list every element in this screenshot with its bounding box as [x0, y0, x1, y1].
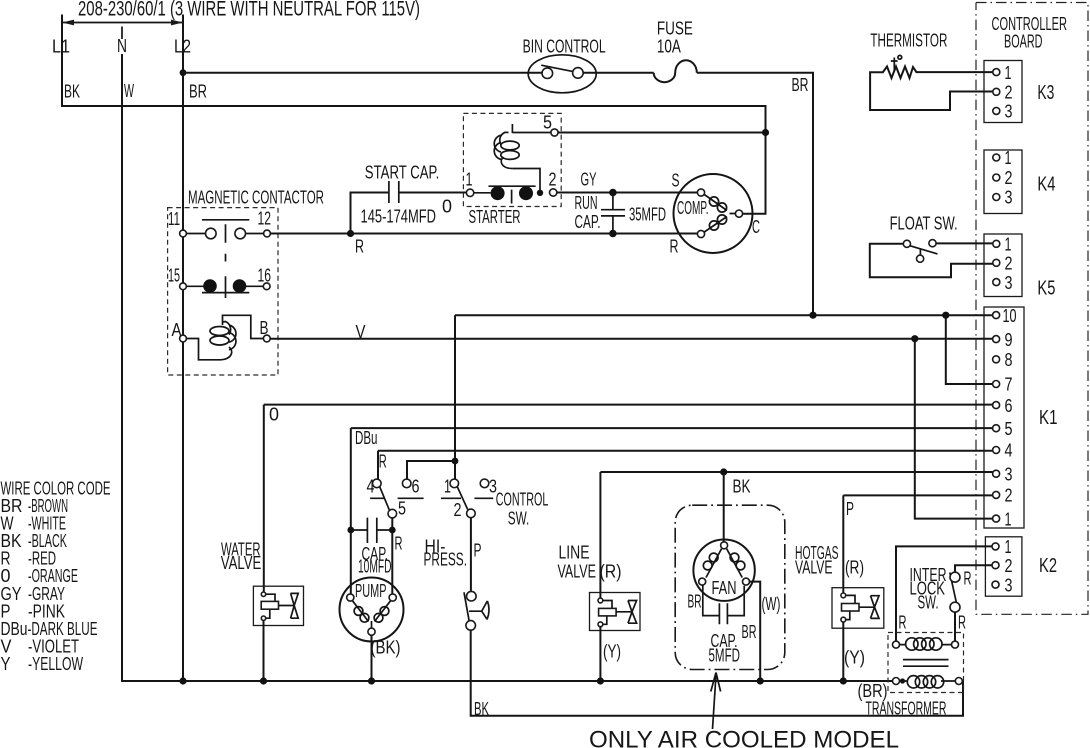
fuse F1 10A: [654, 60, 697, 82]
control switch terminal 4: [373, 479, 382, 488]
svg-text:R: R: [355, 236, 364, 257]
connector K4 pin 3: [993, 194, 1000, 201]
interlock switch contacts: [950, 572, 960, 612]
wire fan right W drop to rail: [750, 582, 761, 681]
svg-text:(R): (R): [600, 561, 622, 582]
connector K1 pin 8: [993, 356, 1000, 363]
svg-text:PRESS.: PRESS.: [424, 549, 468, 570]
connector K4 box: [984, 150, 1022, 214]
connector K1 pin 3: [993, 470, 1000, 477]
svg-text:5: 5: [398, 498, 406, 519]
line valve coil and valve symbol: [599, 601, 637, 625]
control switch terminal 3: [480, 479, 489, 488]
svg-text:0: 0: [442, 196, 452, 217]
node rail junction hotgas: [840, 677, 847, 684]
svg-text:2: 2: [1005, 253, 1013, 274]
water valve box: [253, 586, 303, 625]
svg-text:FLOAT SW.: FLOAT SW.: [890, 213, 958, 234]
starter terminal 5: [551, 129, 558, 136]
wire hotgas valve to rail: [842, 622, 844, 681]
hi-press switch: [464, 591, 489, 630]
svg-text:(R): (R): [845, 557, 864, 578]
svg-text:1: 1: [1005, 62, 1012, 83]
transformer primary coil: [900, 638, 952, 650]
wire BR top run to bin control: [183, 72, 542, 74]
wire BR after fuse, down to K1-10 line: [697, 73, 813, 316]
wire DBu line to pin 5: [351, 427, 993, 429]
capacitor cap10 plates and leads: [351, 518, 393, 543]
wire BR from bin control to fuse: [583, 72, 654, 74]
node junction BR on pin10 line: [809, 312, 816, 319]
fan terminal right: [743, 578, 750, 585]
svg-text:START CAP.: START CAP.: [365, 162, 440, 183]
transformer T1 dashed box: [888, 633, 964, 693]
connector K5 pin 1: [993, 240, 1000, 247]
thermistor symbol and leads: [870, 67, 993, 111]
transformer secondary terminal right: [955, 678, 962, 685]
wire V line from contactor B to pin 9: [270, 338, 992, 340]
svg-text:BR: BR: [189, 81, 207, 102]
svg-text:BOARD: BOARD: [1004, 31, 1043, 52]
wire line valve to rail: [599, 627, 601, 681]
node junction cap10 left: [347, 527, 354, 534]
svg-text:DBu: DBu: [355, 427, 378, 448]
connector K1 pin 5: [993, 425, 1000, 432]
wire BK line to pin 3: [600, 471, 992, 473]
connector K4 pin 1: [993, 154, 1000, 161]
svg-text:2: 2: [549, 169, 557, 190]
svg-text:RUN: RUN: [575, 192, 598, 213]
connector K3 box: [984, 61, 1022, 123]
svg-text:BK: BK: [733, 476, 751, 497]
svg-text:A: A: [172, 319, 183, 340]
connector K5 pin 3: [993, 279, 1000, 286]
connector K1 pin 9: [993, 336, 1000, 343]
fan terminal left: [699, 578, 706, 585]
connector K5 pin 2: [993, 259, 1000, 266]
svg-text:SW.: SW.: [918, 592, 939, 613]
svg-text:P: P: [846, 498, 854, 519]
fan windings: [703, 549, 745, 578]
compressor terminal R: [697, 230, 704, 237]
wire starter 2 to compressor S: [557, 192, 698, 194]
svg-text:LINE: LINE: [559, 542, 590, 563]
svg-text:2: 2: [1005, 167, 1013, 188]
connector K5 box: [984, 234, 1022, 297]
wire K2 pin1 to transformer primary left: [896, 546, 992, 641]
svg-text:11: 11: [168, 208, 180, 229]
fan enclosure dash-dot rounded box: [675, 505, 785, 669]
contactor terminal 15: [180, 283, 187, 290]
wire BK drop to line valve: [599, 472, 601, 598]
water valve coil and valve symbol: [261, 593, 298, 618]
wire N neutral: down to bottom rail, rail across: [122, 54, 893, 681]
node rail junction pump: [368, 677, 375, 684]
control switch terminal 1: [450, 479, 459, 488]
svg-text:SW.: SW.: [508, 508, 530, 529]
wire K2 pin2 to interlock: [955, 565, 992, 572]
compressor terminal C: [735, 210, 742, 217]
svg-text:4: 4: [367, 476, 375, 497]
svg-text:(BK): (BK): [371, 637, 401, 658]
compressor terminal S: [697, 189, 704, 196]
node junction V to pin1 riser: [911, 335, 918, 342]
connector K1 pin 10: [993, 312, 1000, 319]
svg-text:FAN: FAN: [712, 577, 737, 598]
svg-text:B: B: [260, 317, 269, 338]
svg-text:9: 9: [1005, 329, 1013, 350]
pump terminal bottom: [368, 628, 375, 635]
wire pump to bottom rail: [371, 635, 373, 681]
svg-text:0: 0: [269, 404, 279, 425]
svg-text:2: 2: [1005, 485, 1013, 506]
line valve terminal top: [598, 598, 603, 603]
control switch terminal 2: [467, 509, 476, 518]
connector K1 box: [984, 307, 1024, 528]
svg-text:1: 1: [1005, 234, 1012, 255]
svg-text:BIN CONTROL: BIN CONTROL: [523, 36, 606, 57]
starter coil leads: [512, 124, 551, 193]
svg-text:K3: K3: [1037, 82, 1054, 104]
wire DBu drop to pump left: [350, 428, 352, 594]
control switch arm 1-2: [457, 487, 467, 510]
wire K1 pin10 line: [455, 314, 993, 316]
connector K4 pin 2: [993, 174, 1000, 181]
hotgas valve terminal bottom: [841, 617, 846, 622]
wire R line to pin 4: [378, 450, 993, 452]
starter dashed box: [463, 113, 561, 206]
svg-text:2: 2: [1005, 555, 1013, 576]
contactor coil leads: [186, 315, 263, 360]
contactor coil MC: [210, 322, 236, 360]
svg-text:S: S: [672, 170, 680, 191]
svg-text:7: 7: [1005, 374, 1013, 395]
dimension arrow line: [62, 20, 183, 39]
connector K2 pin 2: [992, 562, 999, 569]
compressor windings: [704, 195, 735, 233]
node rail junction water valve: [260, 677, 267, 684]
node junction run cap top: [609, 189, 617, 197]
svg-text:R: R: [964, 568, 972, 589]
svg-text:12: 12: [258, 208, 272, 229]
node junction R start-cap tap: [347, 230, 354, 237]
svg-text:BR: BR: [742, 621, 757, 642]
svg-text:1: 1: [1005, 508, 1012, 529]
wire hi-press down and BK bottom run to transformer: [471, 630, 963, 716]
svg-text:P: P: [474, 540, 482, 561]
control switch terminal 5: [388, 509, 397, 518]
thermistor t-degree mark: [891, 58, 898, 72]
svg-text:1: 1: [444, 476, 451, 497]
svg-text:10A: 10A: [657, 36, 681, 57]
svg-text:N: N: [117, 35, 127, 56]
svg-text:K1: K1: [1039, 407, 1058, 429]
svg-text:15: 15: [168, 265, 180, 286]
wire contactor 12 to compressor R: [270, 233, 697, 235]
transformer secondary coil: [900, 676, 956, 688]
connector K2 pin 3: [992, 581, 999, 588]
svg-text:10MFD: 10MFD: [358, 556, 392, 577]
svg-text:R: R: [899, 612, 907, 633]
wire branch to control sw 6: [407, 461, 455, 479]
starter coil: [494, 132, 519, 168]
node rail junction L2: [179, 677, 186, 684]
svg-text:16: 16: [258, 265, 272, 286]
pump terminal right: [389, 594, 396, 601]
svg-text:PUMP: PUMP: [355, 580, 387, 601]
wire control sw 5 down to pump right: [391, 518, 393, 594]
contactor terminal A: [180, 335, 187, 342]
connector K1 pin 6: [993, 402, 1000, 409]
wire fan feed drop: [723, 472, 725, 542]
node rail junction line valve: [597, 677, 604, 684]
connector K3 pin 2: [993, 88, 1000, 95]
svg-text:3: 3: [1005, 101, 1013, 122]
wire pin1 riser: [915, 339, 993, 519]
svg-text:BK: BK: [64, 81, 80, 102]
wire fan left to cap5: [703, 585, 720, 616]
svg-text:VALVE: VALVE: [221, 552, 261, 573]
svg-text:-YELLOW: -YELLOW: [28, 653, 83, 674]
svg-text:35MFD: 35MFD: [629, 204, 666, 225]
svg-text:ONLY AIR COOLED MODEL: ONLY AIR COOLED MODEL: [589, 727, 899, 748]
water valve terminal top: [261, 592, 265, 596]
water valve terminal bottom: [261, 616, 265, 620]
float switch wires: [870, 243, 993, 277]
transformer primary terminal left: [893, 641, 900, 648]
control switch terminal 6: [402, 479, 411, 488]
capacitor cap5 plates: [719, 603, 727, 624]
wire L2 vertical through contactor: [182, 15, 184, 682]
bin control switch: [528, 55, 596, 93]
wire L1 black: down and across to compressor C: [62, 15, 766, 214]
svg-text:3: 3: [1005, 187, 1013, 208]
caption arrow to fan enclosure: [711, 673, 721, 730]
svg-text:10: 10: [1003, 305, 1017, 326]
connector K1 pin 4: [993, 447, 1000, 454]
node junction control sw 1/6: [452, 458, 459, 465]
transformer secondary terminal left: [893, 678, 900, 685]
svg-text:K5: K5: [1037, 278, 1055, 300]
line valve terminal bottom: [598, 622, 603, 627]
svg-text:R: R: [958, 612, 966, 633]
connector K2 pin 1: [992, 543, 999, 550]
wire control sw 2 down to hi-press: [470, 518, 472, 592]
hotgas valve box: [832, 588, 884, 629]
wire starter 5 to BK drop: [558, 132, 765, 134]
wire O drop to water valve: [263, 405, 265, 593]
svg-text:R: R: [670, 236, 679, 257]
svg-text:CAP.: CAP.: [575, 211, 601, 232]
connector K1 pin 1: [993, 515, 1000, 522]
connector K2 box: [985, 537, 1022, 596]
svg-text:6: 6: [412, 476, 420, 497]
svg-text:THERMISTOR: THERMISTOR: [870, 30, 947, 51]
svg-text:(W): (W): [762, 593, 781, 614]
svg-text:5: 5: [1005, 418, 1013, 439]
svg-text:5MFD: 5MFD: [709, 645, 741, 666]
connector K1 pin 2: [993, 491, 1000, 498]
wire R drop to control sw 4: [377, 451, 379, 480]
svg-text:R: R: [379, 451, 387, 472]
pump motor circle: [340, 578, 404, 642]
node starter coil junction: [537, 190, 543, 196]
connector K1 pin 7: [993, 381, 1000, 388]
svg-text:TRANSFORMER: TRANSFORMER: [866, 698, 947, 719]
starter contacts: [474, 186, 536, 203]
wire pin7 riser: [946, 315, 993, 384]
svg-text:1: 1: [466, 169, 473, 190]
svg-text:K2: K2: [1039, 555, 1057, 577]
node rail junction fan W: [757, 677, 764, 684]
wire P drop to hotgas valve: [842, 495, 844, 593]
wire water valve to rail: [263, 620, 265, 681]
wire O line to pin 6: [264, 404, 993, 406]
starter terminal 1: [466, 189, 473, 196]
line valve box: [590, 593, 641, 631]
magnetic contactor dashed box: [168, 208, 278, 375]
svg-text:(Y): (Y): [603, 641, 621, 662]
contactor terminal 16: [263, 283, 270, 290]
wire interlock to transformer primary right: [954, 612, 956, 641]
svg-text:W: W: [124, 80, 134, 101]
transformer core lines: [903, 660, 949, 667]
contactor contact row 15-16: [186, 254, 263, 298]
fan motor circle: [693, 540, 754, 601]
pump terminal left: [347, 594, 354, 601]
node junction L2/BR: [180, 69, 187, 76]
contactor contact row 11-12: [186, 220, 263, 243]
connector K3 pin 3: [993, 107, 1000, 114]
svg-text:6: 6: [1005, 395, 1013, 416]
node junction pin7 tap on pin10 line: [942, 312, 949, 319]
svg-text:C: C: [752, 216, 760, 237]
svg-text:3: 3: [1005, 574, 1013, 595]
svg-text:145-174MFD: 145-174MFD: [361, 206, 437, 227]
control switch arm 4-5: [380, 487, 390, 510]
contactor terminal 12: [264, 230, 271, 237]
capacitor run cap: [601, 193, 625, 234]
control switch gang dashes: [370, 497, 493, 499]
svg-text:VALVE: VALVE: [795, 557, 833, 578]
capacitor start cap plates: [389, 181, 399, 203]
pump windings: [353, 601, 391, 628]
wire P line to pin 2: [843, 494, 992, 496]
wire start cap riser: [351, 193, 467, 234]
node junction cap10 right: [389, 527, 396, 534]
contactor terminal 11: [180, 230, 187, 237]
svg-text:1: 1: [1005, 147, 1012, 168]
svg-text:4: 4: [1005, 440, 1013, 461]
hotgas valve coil and valve symbol: [842, 595, 880, 619]
node junction 5-wire/BK drop: [762, 129, 769, 136]
transformer primary terminal right: [952, 641, 959, 648]
wire control switch feed riser: [454, 315, 456, 479]
svg-text:K4: K4: [1037, 174, 1055, 196]
svg-text:BR: BR: [688, 591, 702, 612]
wire cap5 to fan right: [727, 586, 744, 616]
float switch contacts: [903, 240, 937, 263]
node junction run cap bottom: [609, 230, 617, 238]
svg-text:3: 3: [1005, 463, 1013, 484]
controller board dashed outline: [976, 3, 1088, 615]
svg-text:MAGNETIC CONTACTOR: MAGNETIC CONTACTOR: [188, 187, 324, 208]
fan terminal top: [721, 542, 728, 549]
svg-text:208-230/60/1 (3 WIRE WITH NEUT: 208-230/60/1 (3 WIRE WITH NEUTRAL FOR 11…: [78, 0, 420, 21]
node junction fan feed: [720, 468, 727, 475]
contactor terminal B: [263, 335, 270, 342]
svg-text:BR: BR: [792, 74, 809, 95]
svg-text:VALVE: VALVE: [558, 561, 597, 582]
hotgas valve terminal top: [841, 593, 846, 598]
svg-text:GY: GY: [581, 169, 597, 190]
svg-text:(Y): (Y): [844, 647, 865, 668]
svg-text:STARTER: STARTER: [469, 206, 521, 227]
starter terminal 2: [550, 189, 557, 196]
connector K3 pin 1: [993, 69, 1000, 76]
svg-text:COMP.: COMP.: [677, 197, 709, 218]
svg-text:R: R: [395, 533, 403, 554]
svg-text:BK: BK: [474, 698, 489, 719]
svg-text:5: 5: [543, 112, 552, 133]
compressor COMP motor: [674, 174, 753, 253]
svg-text:V: V: [356, 321, 367, 342]
node small junction secondary lead: [900, 678, 905, 683]
svg-text:Y: Y: [1, 653, 11, 674]
svg-text:3: 3: [1005, 272, 1013, 293]
svg-text:2: 2: [1005, 82, 1013, 103]
svg-text:2: 2: [454, 499, 462, 520]
svg-text:CONTROL: CONTROL: [496, 489, 549, 510]
svg-text:8: 8: [1005, 349, 1013, 370]
